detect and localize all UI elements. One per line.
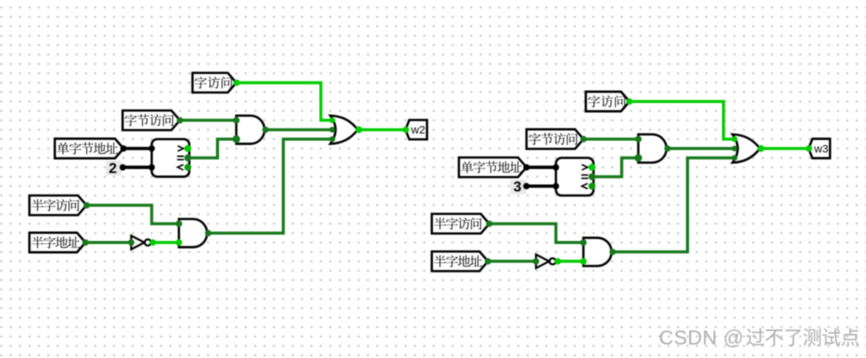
OR gate (right)	[733, 134, 760, 162]
svg-text:3: 3	[513, 180, 521, 196]
svg-text:2: 2	[109, 161, 117, 177]
wire 字节访问(L) to AND gate top input	[180, 119, 236, 122]
wire 单字节地址(L) bus to comparator input A	[124, 147, 152, 150]
output pin w2	[406, 120, 428, 139]
comparator U1 (left)	[152, 139, 190, 177]
AND gate (left lower)	[179, 219, 207, 247]
wire lower AND(R) output to OR gate bottom input	[613, 158, 737, 252]
wire 字访问(R) to OR gate top input	[630, 102, 736, 140]
OR gate (left)	[330, 116, 357, 144]
wire constant 2 bus to comparator input B	[123, 166, 152, 169]
AND gate (right lower)	[583, 238, 611, 266]
AND gate (right upper)	[638, 134, 666, 162]
svg-text:w2: w2	[410, 125, 425, 137]
wire 半字访问(L) to lower AND gate top input	[87, 205, 179, 223]
tunnel 半字访问 (left)	[29, 196, 86, 216]
NOT gate (left)	[131, 236, 144, 250]
wire comparator(L) = output to AND gate bottom input	[189, 139, 236, 158]
wire NOT(L) output to lower AND gate bottom input	[153, 241, 179, 244]
comparator U2 (right)	[556, 158, 594, 196]
NOT gate (right)	[536, 255, 549, 269]
tunnel 字访问 (right)	[586, 92, 630, 112]
output pin w3	[809, 139, 830, 158]
tunnel 字节访问 (left)	[123, 111, 180, 131]
wire 半字访问(R) to lower AND gate top input	[490, 224, 584, 243]
constant 2	[106, 161, 122, 175]
wire OR(R) output to w3 pin	[761, 147, 809, 150]
tunnel 字访问 (left)	[193, 73, 237, 93]
wire 字节访问(R) to AND gate top input	[584, 138, 638, 141]
wire comparator(R) = output to AND gate bottom input	[594, 158, 639, 177]
tunnel 单字节地址 (right)	[459, 158, 527, 178]
svg-text:CSDN @: CSDN @	[659, 328, 744, 350]
wire 半字地址(L) to NOT gate input	[86, 241, 132, 244]
tunnel 半字地址 (right)	[432, 252, 488, 272]
wire OR(L) output to w2 pin	[359, 128, 406, 131]
wire lower AND(L) output to OR gate bottom input	[208, 139, 334, 233]
wire AND(L) output to OR gate middle input	[266, 128, 335, 131]
AND gate (left upper)	[236, 116, 264, 144]
svg-text:w3: w3	[813, 143, 828, 155]
wire constant 3 bus to comparator input B	[526, 184, 556, 187]
wire 单字节地址(R) bus to comparator input A	[527, 166, 556, 169]
tunnel 半字访问 (right)	[432, 214, 490, 234]
tunnel 半字地址 (left)	[29, 233, 85, 253]
tunnel 单字节地址 (left)	[55, 139, 124, 159]
constant 3	[510, 180, 526, 194]
wire NOT(R) output to lower AND gate bottom input	[558, 260, 584, 263]
wire 半字地址(R) to NOT gate input	[488, 260, 536, 263]
wire 字访问(L) to OR gate top input	[237, 83, 334, 121]
wire AND(R) output to OR gate middle input	[668, 147, 737, 150]
tunnel 字节访问 (right)	[527, 129, 584, 149]
